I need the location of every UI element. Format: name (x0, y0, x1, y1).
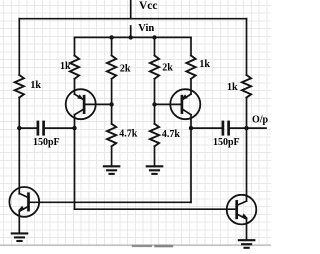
svg-text:4.7k: 4.7k (119, 128, 138, 139)
svg-text:1k: 1k (227, 82, 238, 93)
svg-text:150pF: 150pF (33, 137, 60, 148)
svg-text:4.7k: 4.7k (162, 129, 181, 140)
svg-text:1k: 1k (30, 80, 41, 91)
svg-text:150pF: 150pF (213, 137, 240, 148)
svg-text:Vcc: Vcc (139, 0, 158, 12)
svg-text:Vin: Vin (138, 23, 154, 34)
svg-text:O/p: O/p (252, 114, 269, 125)
svg-text:2k: 2k (120, 63, 131, 74)
svg-text:2k: 2k (162, 63, 173, 74)
svg-text:1k: 1k (199, 59, 210, 70)
svg-text:1k: 1k (60, 61, 71, 72)
